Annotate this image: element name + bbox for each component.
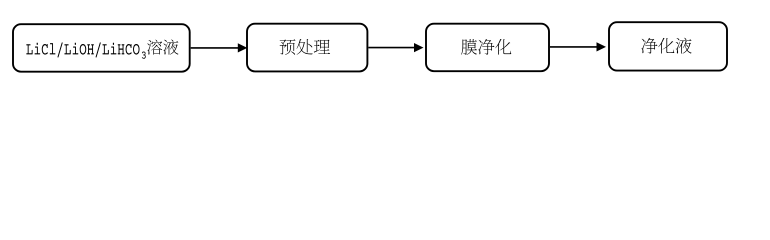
- arrow: solution to pretreatment: [191, 43, 248, 52]
- arrow: membrane purification to purified liquid: [550, 42, 606, 51]
- arrow: pretreatment to membrane purification: [368, 43, 423, 52]
- flowchart: lithium solution purification process: [0, 0, 770, 87]
- label text: 净化液: [641, 38, 691, 54]
- process box: purified liquid 净化液: [609, 22, 727, 70]
- process box: membrane purification 膜净化: [426, 24, 549, 71]
- label text: 膜净化: [461, 39, 511, 55]
- label text: LiCl/LiOH/LiHCO3 溶液: [26, 40, 178, 59]
- label text: 预处理: [280, 39, 330, 55]
- process box: LiCl/LiOH/LiHCO3 solution: [13, 24, 190, 71]
- process box: pretreatment 预处理: [247, 24, 367, 72]
